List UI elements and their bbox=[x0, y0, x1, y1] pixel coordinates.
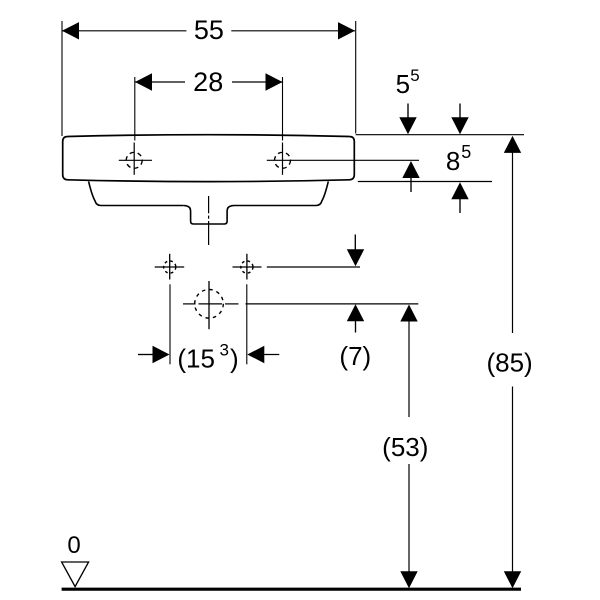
fixing hole right bbox=[233, 254, 262, 280]
svg-text:(85): (85) bbox=[486, 348, 532, 378]
dimension 15.3 right extension line bbox=[246, 284, 248, 364]
dimension 55 left extension line bbox=[61, 21, 63, 136]
dimension 28 left arrowhead bbox=[135, 73, 152, 90]
dimension 28 right extension line bbox=[282, 77, 284, 141]
dimension 28 right arrowhead bbox=[266, 73, 283, 90]
siphon horizontal axis line bbox=[183, 303, 418, 305]
svg-text:0: 0 bbox=[67, 532, 80, 559]
svg-text:(7): (7) bbox=[339, 341, 371, 371]
svg-text:5: 5 bbox=[396, 69, 410, 99]
dimension 55 right extension line bbox=[355, 21, 357, 134]
faucet hole left bbox=[119, 143, 152, 175]
drain outlet bbox=[184, 206, 234, 225]
washbasin bowl apron left bbox=[89, 181, 184, 205]
dimension 28 left extension line bbox=[134, 77, 136, 141]
dimension 5.5 lower arrow (up) bbox=[402, 161, 419, 192]
svg-text:28: 28 bbox=[193, 67, 223, 97]
rim bottom reference line bbox=[358, 181, 492, 183]
drain centerline bbox=[208, 196, 210, 245]
zero level triangle symbol bbox=[62, 562, 89, 587]
siphon vertical centerline bbox=[208, 281, 210, 329]
dimension 7 lower arrow (up) bbox=[347, 304, 364, 332]
faucet hole axis line extended right bbox=[267, 159, 419, 161]
faucet hole right bbox=[275, 143, 291, 175]
svg-text:5: 5 bbox=[410, 66, 419, 85]
svg-text:8: 8 bbox=[446, 146, 460, 176]
dimension 55 left arrowhead bbox=[62, 22, 79, 39]
washbasin bowl apron right bbox=[234, 181, 328, 205]
dimension 28 line bbox=[135, 81, 283, 83]
dimension 85 line with arrows bbox=[504, 136, 521, 588]
dimension 55 right arrowhead bbox=[338, 22, 355, 39]
dimension 8.5 lower arrow (up) bbox=[451, 182, 468, 213]
fixing hole axis line extended right bbox=[267, 266, 360, 268]
dimension 5.5 upper arrow (down) bbox=[399, 104, 416, 135]
floor line bbox=[62, 588, 521, 591]
siphon circle bbox=[195, 290, 224, 319]
svg-text:5: 5 bbox=[461, 142, 471, 162]
dimension 15.3 left arrow bbox=[138, 346, 170, 363]
dimension 7 upper arrow (down) bbox=[347, 235, 364, 267]
dimension 53 line with arrows bbox=[400, 305, 417, 589]
svg-text:55: 55 bbox=[194, 15, 224, 45]
dimension 15.3 right arrow bbox=[247, 346, 279, 363]
svg-text:(153): (153) bbox=[177, 341, 238, 374]
rim top reference line bbox=[356, 134, 524, 136]
dimension 55 line bbox=[62, 30, 355, 32]
dimension 15.3 left extension line bbox=[169, 284, 171, 364]
svg-text:(53): (53) bbox=[382, 432, 428, 462]
fixing hole left bbox=[155, 254, 185, 280]
dimension 8.5 upper arrow (down) bbox=[451, 104, 468, 135]
washbasin rim outline bbox=[63, 135, 355, 182]
